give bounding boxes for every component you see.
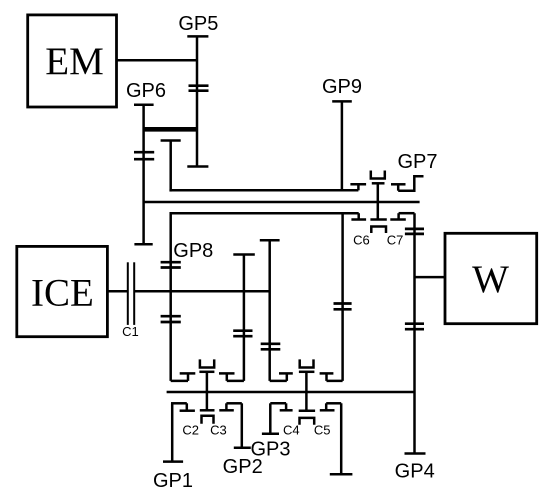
clutch C2 C3 lower sleeve bbox=[200, 410, 215, 424]
gear pair GP7 jaw bbox=[391, 176, 424, 191]
clutch C4 C5 lower sleeve bbox=[299, 411, 315, 425]
svg-text:EM: EM bbox=[45, 40, 104, 83]
wire middle column B with gear bbox=[260, 240, 281, 381]
wire middle column A with gear bbox=[233, 255, 255, 381]
wire input shaft from C1 bbox=[134, 290, 270, 293]
wire lower shaft S4 bbox=[167, 391, 415, 394]
wire right column C with gear bbox=[334, 213, 352, 381]
svg-text:C2: C2 bbox=[182, 422, 199, 437]
gear pair GP9 shaft bbox=[332, 101, 352, 190]
jaw upper right of sync1 bbox=[219, 373, 244, 381]
wire GP8 shaft vertical bbox=[169, 212, 172, 381]
svg-text:GP9: GP9 bbox=[322, 76, 362, 98]
svg-text:C1: C1 bbox=[122, 324, 139, 339]
svg-text:GP8: GP8 bbox=[173, 240, 213, 262]
gear pair GP3 end bbox=[262, 433, 279, 436]
svg-text:ICE: ICE bbox=[31, 272, 94, 315]
wire EM to GP5 shaft bbox=[117, 59, 198, 62]
synchronizer upper sleeve at C2C3 bbox=[199, 359, 214, 410]
clutch C6 upper jaw bbox=[350, 184, 366, 190]
clutch C7 lower jaw bbox=[390, 213, 414, 219]
wire bold coupling bar GP6-GP5 bbox=[144, 127, 197, 132]
clutch C6 lower jaw bbox=[351, 213, 366, 219]
svg-text:GP3: GP3 bbox=[250, 439, 290, 461]
jaw upper left of sync1 bbox=[171, 373, 196, 381]
svg-text:C7: C7 bbox=[387, 232, 404, 247]
gear pair GP2 end bbox=[234, 446, 251, 449]
gear pair GP4 end bbox=[405, 452, 426, 455]
gear end below C5 bbox=[330, 473, 353, 476]
wire W column to W box bbox=[415, 276, 446, 279]
svg-text:C5: C5 bbox=[314, 422, 331, 437]
box W bbox=[445, 233, 537, 323]
gear pair GP1 end bbox=[163, 460, 183, 463]
gear pair GP8 gears bbox=[161, 262, 181, 322]
wire shaft S2 main bbox=[144, 201, 420, 204]
clutch C6 C7 synchronizer sleeve bbox=[370, 171, 386, 234]
wire shaft S3 bbox=[171, 212, 359, 215]
wire W column bbox=[405, 213, 424, 453]
clutch C2 jaw and GP1 line bbox=[171, 403, 195, 461]
clutch C3 jaw and GP2 line bbox=[219, 403, 242, 447]
svg-text:C6: C6 bbox=[353, 232, 370, 247]
svg-text:GP6: GP6 bbox=[126, 80, 166, 102]
box EM bbox=[28, 15, 117, 107]
synchronizer upper sleeve at C4C5 bbox=[299, 359, 315, 410]
svg-text:GP4: GP4 bbox=[395, 460, 435, 482]
jaw upper left of sync2 bbox=[270, 373, 293, 381]
jaw upper right of sync2 bbox=[320, 373, 343, 381]
clutch C1 bbox=[122, 262, 139, 339]
clutch C5 jaw and counter line bbox=[320, 403, 341, 474]
svg-text:GP7: GP7 bbox=[397, 151, 437, 173]
svg-text:C3: C3 bbox=[210, 422, 227, 437]
box ICE bbox=[17, 246, 108, 336]
clutch C4 jaw and GP3 line bbox=[270, 403, 292, 434]
svg-text:W: W bbox=[472, 258, 509, 301]
wire shaft S1 with stub gear bbox=[161, 141, 359, 192]
gear pair GP6 shaft bbox=[134, 105, 154, 245]
gear pair GP5 shaft bbox=[187, 36, 208, 166]
svg-text:C4: C4 bbox=[283, 423, 300, 438]
svg-text:GP5: GP5 bbox=[178, 13, 218, 35]
wire ICE to C1 bbox=[107, 290, 127, 293]
svg-text:GP1: GP1 bbox=[153, 470, 193, 492]
